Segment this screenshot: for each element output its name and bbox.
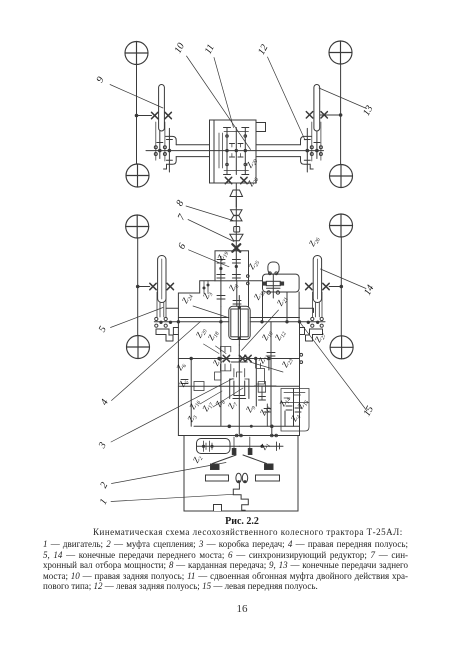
leader Z21 — [242, 310, 279, 351]
final drive front-left 5 — [138, 256, 174, 342]
svg-text:Z8: Z8 — [213, 397, 227, 409]
svg-text:Z7: Z7 — [225, 399, 239, 411]
shaft row 1 — [178, 353, 302, 370]
leader 12 — [268, 57, 306, 140]
leader 15 — [300, 322, 368, 411]
wheel front-left-top — [126, 215, 149, 238]
main shaft gear cluster — [230, 345, 249, 434]
countershaft upper — [217, 281, 225, 307]
front left axle — [136, 238, 139, 336]
svg-text:9: 9 — [95, 75, 107, 85]
wheel front-right-top — [330, 214, 353, 237]
svg-text:Z1: Z1 — [258, 440, 272, 452]
svg-text:Z29: Z29 — [244, 155, 260, 170]
svg-text:Z23: Z23 — [279, 355, 295, 370]
gearbox upper band outline — [166, 281, 314, 322]
wheel front-right-bottom — [330, 336, 353, 359]
rear right axle — [339, 64, 342, 165]
node main axle line through diff — [210, 150, 257, 152]
svg-text:Z6: Z6 — [174, 360, 188, 372]
leader Z24 — [193, 306, 228, 318]
svg-text:Z27: Z27 — [312, 330, 328, 345]
svg-text:3: 3 — [96, 441, 109, 451]
leader Z20 — [204, 344, 220, 354]
engine crankshaft 1 — [233, 481, 248, 510]
PTO rear shaft line Z1 — [239, 442, 283, 451]
figure caption — [17, 516, 450, 527]
svg-text:8: 8 — [174, 199, 186, 209]
svg-text:Z28: Z28 — [245, 174, 261, 189]
svg-text:Z17: Z17 — [200, 399, 216, 414]
svg-text:10: 10 — [173, 41, 187, 55]
svg-text:4: 4 — [99, 398, 111, 408]
tab on diff — [256, 123, 266, 132]
svg-text:Z3: Z3 — [200, 289, 214, 301]
leader 10 — [187, 56, 251, 150]
left gear shaft — [178, 359, 299, 427]
svg-text:14: 14 — [362, 283, 376, 297]
right gear bracket Z11 — [255, 359, 277, 407]
front drive line right — [250, 318, 325, 322]
rear left axle — [135, 65, 138, 165]
callout numbers — [95, 41, 377, 506]
shaft Z22 — [249, 281, 288, 322]
countershaft lower — [215, 307, 231, 426]
leader 14 — [321, 269, 367, 289]
band small shafts — [203, 281, 209, 294]
svg-text:Z21: Z21 — [274, 293, 290, 308]
bevel input gear reducer — [232, 244, 240, 252]
wheel front-left-bottom — [127, 336, 150, 359]
Z gear labels — [174, 155, 328, 465]
svg-text:Z16: Z16 — [187, 397, 203, 412]
wheel rear-right-top — [329, 41, 352, 64]
rear right axle tube — [256, 145, 324, 157]
final drive front-right 14 — [306, 256, 342, 342]
leader 5 — [111, 308, 164, 328]
leader Z23 — [250, 362, 283, 372]
leader Z17 — [213, 388, 243, 407]
leader 1 — [111, 494, 233, 501]
notch bottom — [214, 505, 222, 512]
svg-text:Z8: Z8 — [226, 281, 240, 293]
svg-text:Z2: Z2 — [190, 453, 204, 465]
PTO lower shaft — [259, 322, 276, 427]
leader Z16 — [200, 391, 222, 404]
svg-text:12: 12 — [256, 43, 270, 57]
lower clutch housing — [184, 436, 298, 512]
svg-text:Z12: Z12 — [272, 328, 288, 343]
svg-text:Z4: Z4 — [288, 411, 302, 423]
leader 4 — [112, 322, 201, 401]
differential rear axle housing — [210, 120, 257, 183]
front right axle — [340, 237, 343, 336]
final drive rear-left 9 — [137, 85, 177, 173]
svg-text:Z22: Z22 — [251, 287, 267, 302]
leader 2 — [112, 463, 227, 484]
main shaft upper — [233, 281, 241, 307]
leader 11 — [214, 58, 234, 128]
svg-text:13: 13 — [361, 104, 375, 118]
svg-text:Z18: Z18 — [205, 328, 221, 343]
svg-text:Z26: Z26 — [306, 234, 322, 249]
svg-text:Z19: Z19 — [215, 248, 231, 263]
gearbox housing — [173, 322, 304, 436]
leader Z18 — [216, 346, 227, 354]
leader 3 — [111, 379, 233, 443]
front drive line left — [154, 318, 229, 322]
main gear block — [229, 296, 250, 346]
final drive rear-right 13 — [301, 85, 341, 173]
belt pulley unit Z2 — [197, 439, 240, 454]
bevel pair below diff Z28 — [225, 177, 247, 207]
svg-text:11: 11 — [203, 43, 217, 56]
shaft row 3 — [194, 425, 300, 449]
svg-text:Z15: Z15 — [295, 396, 311, 411]
leader 6 — [189, 250, 230, 267]
cardan shaft 8 — [230, 197, 243, 251]
svg-text:2: 2 — [98, 481, 110, 491]
svg-text:1: 1 — [98, 497, 110, 507]
clutch 2 — [206, 449, 280, 483]
leader 7 — [188, 220, 234, 242]
PTO overrunning clutch 11 unit — [247, 262, 300, 298]
svg-text:Z14: Z14 — [277, 394, 293, 409]
svg-text:Z3: Z3 — [185, 412, 199, 424]
wheel rear-left-top — [125, 42, 148, 65]
synchronizing reducer 6 — [215, 251, 249, 281]
svg-text:5: 5 — [97, 325, 109, 335]
junction dots front drive — [177, 321, 300, 323]
leader 8 — [186, 206, 233, 221]
leader 9 — [110, 85, 163, 109]
svg-text:Z9: Z9 — [243, 402, 257, 414]
page number — [17, 603, 450, 615]
svg-text:6: 6 — [176, 242, 188, 252]
svg-text:7: 7 — [176, 212, 189, 222]
wheel rear-right-bottom — [330, 165, 353, 188]
rear left axle tube — [146, 145, 210, 157]
wheel rear-left-bottom — [126, 164, 149, 187]
right reduction sub-box — [281, 389, 309, 432]
leader 13 — [319, 88, 367, 109]
